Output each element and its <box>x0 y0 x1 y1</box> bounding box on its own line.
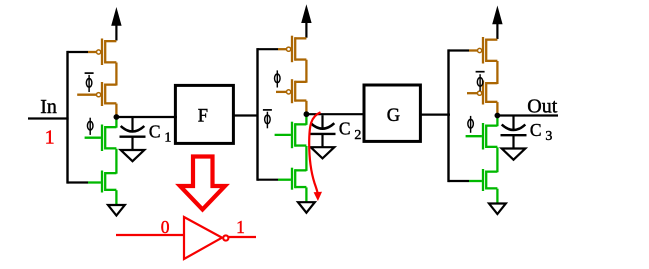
svg-text:2: 2 <box>354 128 361 143</box>
capacitor C2 <box>310 115 336 147</box>
node N3 (stage 3 output junction) <box>495 113 501 119</box>
wire: N3b source to ground <box>496 189 498 204</box>
wire: input gate rail (stage 1) <box>66 51 68 184</box>
wire: gate lead from rail to NMOS N1b <box>68 181 101 183</box>
wire: P2b source to node 2 <box>305 101 307 112</box>
label C3 <box>530 120 553 144</box>
block F (combinational logic) <box>175 85 233 143</box>
wire: G output to stage 3 rail <box>420 113 450 115</box>
wire: node N3 to NMOS N3a drain <box>496 116 498 127</box>
svg-text:In: In <box>40 96 57 118</box>
ground (C1) <box>121 150 145 161</box>
wire: gate lead from rail to PMOS P1a <box>68 51 97 53</box>
wire: clock stub to NMOS N2a gate <box>275 134 291 136</box>
annotation: charge-leak arrow (node N2 to ground) <box>309 112 322 201</box>
wire: P2a source to P2b drain <box>305 60 307 83</box>
transistor P1a (PMOS, input-driven) <box>97 39 117 66</box>
label In (input net name) <box>40 96 57 118</box>
wire: node N1 to F block <box>114 116 176 118</box>
wire: input gate rail (stage 2) <box>256 48 258 181</box>
label F <box>198 106 208 126</box>
wire: clock stub to NMOS N1a gate <box>85 137 101 139</box>
transistor N3a (NMOS, clocked) <box>483 123 497 150</box>
wire: node N2 to G block <box>304 113 365 115</box>
transistor P2a (PMOS, input-driven) <box>287 36 307 63</box>
wire: P3b source to node 3 <box>496 102 498 113</box>
VDD supply arrow (stage 1) <box>111 7 121 41</box>
clock label phi (N1a gate) <box>87 118 93 135</box>
label G <box>387 106 400 126</box>
svg-text:G: G <box>387 106 400 126</box>
wire: N1b source to ground <box>115 190 117 205</box>
wire: P3a source to P3b drain <box>496 61 498 84</box>
clock label phi-bar (N2a gate) <box>263 110 272 128</box>
node N2 (stage 2 output junction) <box>304 111 310 117</box>
inverter U1 (red example gate) <box>184 217 228 259</box>
svg-text:F: F <box>198 106 208 126</box>
block G (combinational logic) <box>364 85 420 141</box>
wire: clock stub to NMOS N3a gate <box>466 135 482 137</box>
svg-text:C: C <box>339 119 351 139</box>
wire: node N3 to Out <box>495 114 558 116</box>
VDD supply arrow (stage 3) <box>492 6 502 40</box>
svg-text:C: C <box>149 121 161 141</box>
wire: gate lead from rail to PMOS P3a <box>449 49 478 51</box>
wire: N2a source to N2b drain <box>305 146 307 171</box>
wire: gate lead from rail to NMOS N3b <box>449 180 482 182</box>
transistor P1b (PMOS, clocked) <box>97 82 117 106</box>
wire: N2b source to ground <box>305 187 307 202</box>
wire: P1a source to P1b drain <box>115 63 117 86</box>
transistor N1b (NMOS, input-driven) <box>102 171 116 193</box>
ground (C2) <box>311 147 335 158</box>
svg-text:1: 1 <box>236 217 245 237</box>
wire: inverter output lead <box>229 236 256 238</box>
ground (stage 1 pull-down) <box>108 205 125 216</box>
wire: inverter input lead <box>116 234 184 236</box>
transistor P2b (PMOS, clocked) <box>287 79 307 103</box>
label 1 (inverter output value) <box>236 217 245 237</box>
ground (stage 3 pull-down) <box>489 204 506 215</box>
svg-text:3: 3 <box>545 129 552 144</box>
transistor N1a (NMOS, clocked) <box>102 125 116 152</box>
wire: node N2 to NMOS N2a drain <box>305 114 307 125</box>
label C2 <box>339 119 362 143</box>
clock label phi-bar (P3b gate) <box>476 72 485 91</box>
VDD supply arrow (stage 2) <box>301 4 311 38</box>
transistor N2a (NMOS, clocked) <box>292 122 306 149</box>
svg-text:1: 1 <box>164 131 171 146</box>
wire: input gate rail (stage 3) <box>447 49 449 182</box>
wire: node N1 to NMOS N1a drain <box>115 117 117 128</box>
transistor P3b (PMOS, clocked) <box>478 81 498 105</box>
transistor P3a (PMOS, input-driven) <box>478 37 498 64</box>
capacitor C3 <box>501 117 527 149</box>
wire: gate lead from rail to PMOS P2a <box>258 48 287 50</box>
wire: gate lead from rail to NMOS N2b <box>258 179 291 181</box>
wire: N1a source to N1b drain <box>115 149 117 174</box>
wire: P1b source to node 1 <box>115 104 117 115</box>
svg-text:Out: Out <box>527 96 557 118</box>
clock label phi (N3a gate) <box>468 116 474 133</box>
wire: In input lead <box>28 117 69 119</box>
capacitor C1 <box>120 118 146 150</box>
clock label phi-bar (P1b gate) <box>85 73 94 92</box>
value label 1 (input logic value) <box>45 127 55 149</box>
clock label phi (P2b gate) <box>275 70 281 87</box>
transistor N3b (NMOS, input-driven) <box>483 169 497 191</box>
transistor N2b (NMOS, input-driven) <box>292 168 306 190</box>
ground (C3) <box>502 149 526 160</box>
wire: clock stub to PMOS P2b gate <box>276 91 286 93</box>
wire: clock stub to PMOS P1b gate <box>77 94 96 96</box>
label C1 <box>149 121 172 145</box>
annotation: big red block arrow (points to inverter example) <box>180 157 225 210</box>
ground (stage 2 pull-down) <box>298 202 315 213</box>
label 0 (inverter input value) <box>161 217 170 237</box>
svg-text:1: 1 <box>45 127 55 149</box>
svg-text:C: C <box>530 120 542 140</box>
node N1 (stage 1 output junction) <box>114 114 120 120</box>
wire: N3a source to N3b drain <box>496 147 498 172</box>
wire: F output to stage 2 rail <box>233 114 257 116</box>
wire: clock stub to PMOS P3b gate <box>467 92 477 94</box>
label Out (output net name) <box>527 96 557 118</box>
